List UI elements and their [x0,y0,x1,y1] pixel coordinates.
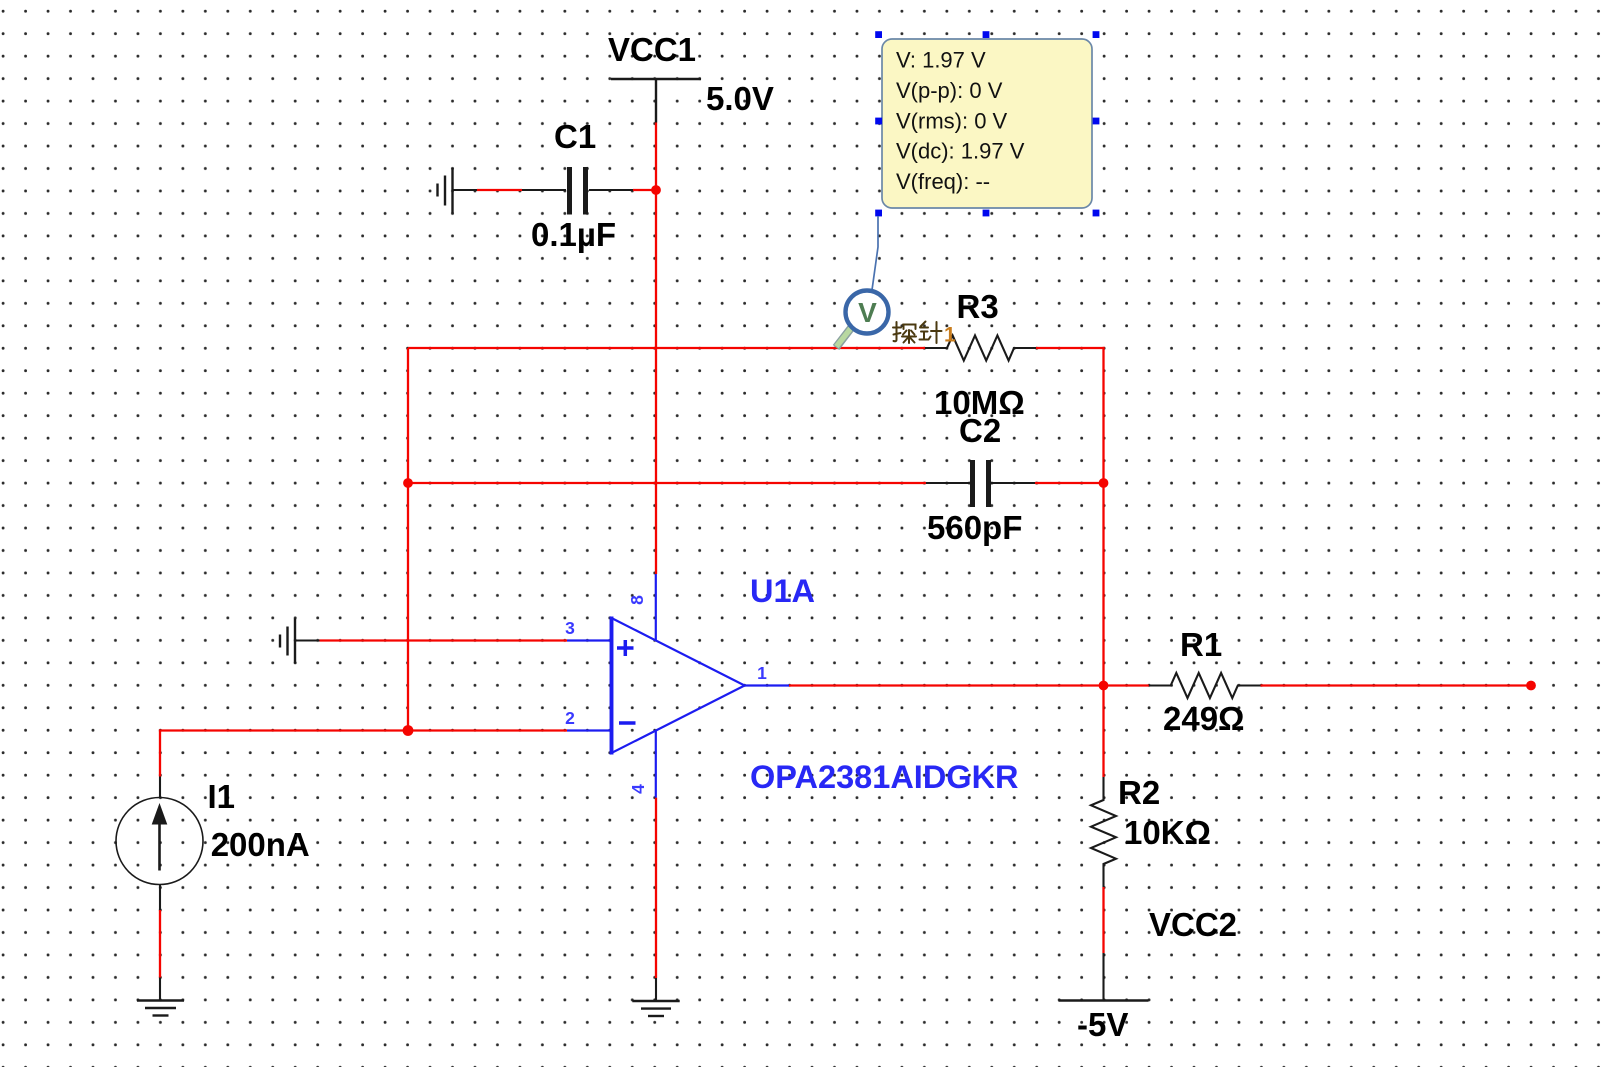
resistor R1 [1149,673,1261,698]
wire C2 right to rail [1035,482,1104,484]
svg-text:4: 4 [628,784,648,794]
wire op-amp pin 4 down to ground [655,798,657,978]
wire I1 top riser [159,731,161,777]
wire R3 to right rail [1036,347,1105,349]
svg-text:10KΩ: 10KΩ [1124,814,1211,851]
wire R1 to output terminal [1261,684,1532,686]
svg-text:U1A: U1A [750,573,815,609]
svg-text:560pF: 560pF [927,509,1022,546]
wire node to C2 left [408,482,926,484]
capacitor C2 [926,460,1035,507]
resistor R2 [1091,777,1116,887]
op-amp U1A [567,574,789,798]
wire ground to op-amp pin 3 [320,639,568,641]
ground at op-amp pin 4 [632,978,679,1016]
junction right rail / C2 [1099,478,1109,488]
svg-text:V(p-p): 0 V: V(p-p): 0 V [896,78,1003,103]
ground at op-amp non-inverting input [280,618,320,663]
wire C1 junction down to op-amp pin 8 [655,190,657,574]
node output terminal [1526,681,1536,691]
svg-text:3: 3 [565,618,575,638]
wire I1 bottom to ground [159,910,161,978]
power VCC2 [1059,953,1149,1001]
probe box selection handles [875,31,1099,216]
wire I1 to op-amp pin 2 [159,729,567,731]
power VCC1 [611,79,701,123]
wire feedback top horizontal to R3 [408,347,925,349]
svg-text:V: 1.97 V: V: 1.97 V [896,48,986,73]
svg-text:5.0V: 5.0V [706,80,774,117]
wire output junction down to R2 [1102,686,1104,778]
wire right rail lower segment [1102,483,1104,686]
wire C1 to VCC rail junction [633,189,656,191]
wire ground to C1 [477,189,522,191]
svg-text:249Ω: 249Ω [1163,700,1245,737]
svg-text:V(dc): 1.97 V: V(dc): 1.97 V [896,139,1025,164]
svg-text:C1: C1 [554,118,596,155]
svg-text:R1: R1 [1180,626,1222,663]
svg-text:VCC1: VCC1 [608,31,696,68]
svg-text:8: 8 [627,595,647,605]
svg-text:OPA2381AIDGKR: OPA2381AIDGKR [750,759,1019,795]
junction C1 / VCC rail [651,185,661,195]
wire VCC1 stem to C1 junction [655,123,657,191]
wire op-amp output [789,684,1149,686]
wire R2 to VCC2 [1102,887,1104,953]
svg-text:1: 1 [757,663,767,683]
ground at I1 [137,978,184,1016]
svg-text:V(rms): 0 V: V(rms): 0 V [896,109,1008,134]
ground at C1 [438,168,453,214]
svg-text:R3: R3 [957,288,999,325]
probe label 探针1 (hanzi drawn as vector strokes) [893,322,942,344]
junction output / right rail [1099,681,1109,691]
probe 1 magnifier [836,291,889,348]
svg-text:0.1µF: 0.1µF [531,216,616,253]
wire right rail upper segment [1102,347,1104,483]
svg-text:I1: I1 [208,778,236,815]
probe leader line [872,216,878,290]
probe annotation box [882,39,1092,208]
svg-text:1: 1 [944,324,956,347]
wire feedback left vertical [407,348,409,731]
current source I1 [116,777,203,911]
svg-text:R2: R2 [1118,774,1160,811]
svg-text:-5V: -5V [1077,1006,1128,1043]
junction feedback left / C2 [403,478,413,488]
resistor R3 [925,336,1036,361]
svg-text:V: V [858,297,877,328]
capacitor C1 [453,167,634,215]
svg-text:VCC2: VCC2 [1149,906,1237,943]
svg-text:C2: C2 [959,412,1001,449]
svg-text:V(freq): --: V(freq): -- [896,169,990,194]
junction feedback left / inverting input [403,725,414,736]
svg-text:200nA: 200nA [211,826,310,863]
svg-text:2: 2 [565,708,575,728]
